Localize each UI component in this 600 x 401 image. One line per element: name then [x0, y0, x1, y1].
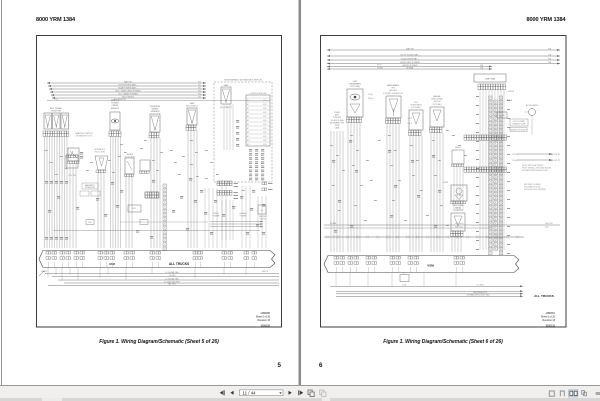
svg-text:85: 85 [596, 391, 600, 396]
svg-text:11 / 44: 11 / 44 [243, 390, 257, 395]
